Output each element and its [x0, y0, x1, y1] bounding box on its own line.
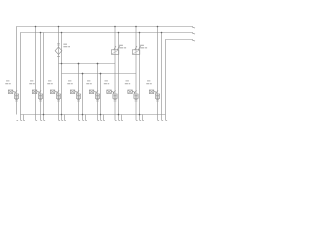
wire drop U4b — [82, 74, 84, 121]
node wire drop U8b — [161, 32, 163, 34]
bus L2 end tick — [192, 33, 195, 34]
switch blade Q5 — [94, 90, 98, 93]
starter Q5 group — [86, 81, 99, 101]
node wire drop U6b — [118, 32, 120, 34]
fuse F1 — [55, 44, 62, 57]
wire drop U6a — [114, 27, 116, 121]
switch blade Q8 — [154, 90, 158, 93]
label Q5 — [86, 81, 91, 84]
transformer T1 breaker poles — [114, 46, 120, 50]
wire feet — [17, 119, 168, 121]
node L1/spare — [35, 26, 37, 28]
wire drop U7b — [139, 33, 141, 121]
disconnect box Q2 — [32, 90, 37, 94]
wire drop U5a — [97, 64, 99, 121]
overload relay Q7 — [134, 94, 138, 99]
disconnect box Q5 — [89, 90, 94, 94]
bottom bus B1 — [21, 114, 166, 116]
starter Q8 group — [146, 81, 159, 101]
feeder bus N2 — [62, 73, 137, 75]
wire drop U5b — [100, 74, 102, 121]
label Q3 — [47, 81, 52, 84]
disconnect box Q1 — [8, 90, 13, 94]
wire drop U8a — [157, 27, 159, 121]
starter Q6 group — [104, 81, 117, 101]
transformer T2 breaker poles — [135, 46, 141, 50]
wire drop U2b — [43, 33, 45, 121]
label Q6 — [104, 81, 109, 84]
bus L1 — [17, 27, 194, 115]
node wire drop U2a — [40, 32, 42, 34]
wire drop U2a — [40, 33, 42, 121]
label Q8 — [146, 81, 151, 84]
node wire drop U7a — [135, 26, 137, 28]
wire drop U7a — [135, 27, 137, 121]
switch blade Q1 — [13, 90, 17, 93]
node wire drop U3a — [58, 26, 60, 28]
node N1 tap U4a — [78, 63, 80, 65]
bus L3 end tick — [192, 40, 195, 41]
overload relay Q1 — [14, 94, 18, 99]
switch blade Q4 — [75, 90, 79, 93]
node N1 tap U5a — [97, 63, 99, 65]
transformer T1 diagonal — [111, 50, 119, 55]
label Q2 — [29, 81, 34, 84]
label Q1 — [5, 81, 10, 84]
label T1 — [119, 45, 126, 48]
overload relay Q5 — [95, 94, 99, 99]
transformer T2 box — [132, 50, 140, 55]
starter Q2 group — [29, 81, 42, 101]
starter Q3 group — [47, 81, 60, 101]
label Q4 — [67, 81, 72, 84]
label T2 — [140, 45, 147, 48]
node wire drop U6a — [114, 26, 116, 28]
starter Q7 group — [125, 81, 138, 101]
starter Q4 group — [67, 81, 80, 101]
wire drop U8b — [161, 33, 163, 121]
feeder bus N1 — [59, 63, 116, 65]
node N2 tap U4b — [82, 73, 84, 75]
overload relay Q2 — [38, 94, 42, 99]
disconnect box Q4 — [70, 90, 75, 94]
node wire drop U4b — [82, 73, 84, 75]
node N2 tap U5b — [100, 73, 102, 75]
node wire drop U8a — [157, 26, 159, 28]
wire drop U3a — [58, 27, 60, 121]
spare wire at x=35.5 — [35, 27, 37, 121]
wire drop U4a — [78, 64, 80, 121]
node wire drop U3b — [61, 32, 63, 34]
transformer T2 diagonal — [132, 50, 140, 55]
node wire drop U7b — [139, 32, 141, 34]
switch blade Q6 — [111, 90, 115, 93]
starter Q1 group — [5, 81, 18, 101]
node wire drop U5a — [97, 63, 99, 65]
disconnect box Q8 — [149, 90, 154, 94]
bottom bus nodes — [43, 114, 45, 116]
overload relay Q4 — [76, 94, 80, 99]
bus L2 — [21, 33, 194, 121]
node wire drop U4a — [78, 63, 80, 65]
wire drop U3b — [61, 33, 63, 121]
wire drop U6b — [118, 33, 120, 121]
bus L3 — [166, 40, 194, 121]
overload relay Q3 — [56, 94, 60, 99]
overload relay Q8 — [155, 94, 159, 99]
disconnect box Q7 — [128, 90, 133, 94]
disconnect box Q3 — [50, 90, 55, 94]
label Q7 — [125, 81, 130, 84]
overload relay Q6 — [113, 94, 117, 99]
switch blade Q3 — [55, 90, 59, 93]
node wire drop U5b — [100, 73, 102, 75]
bus L1 end tick — [192, 27, 195, 28]
label F1 — [63, 44, 70, 47]
bus drop stubs — [22, 115, 24, 121]
node N1 crossing — [61, 63, 63, 65]
transformer T1 box — [111, 50, 119, 55]
disconnect box Q6 — [107, 90, 112, 94]
switch blade Q7 — [132, 90, 136, 93]
switch blade Q2 — [37, 90, 41, 93]
